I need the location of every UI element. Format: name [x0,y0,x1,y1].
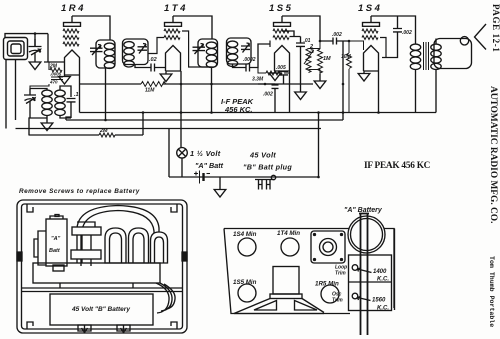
capacitor .01 screen bypass [282,31,305,52]
capacitor .002 AF [258,84,279,113]
svg-text:3.3M: 3.3M [252,77,264,83]
wire T1 to rail [105,68,107,120]
IF can spool post [81,235,91,250]
potentiometer 2M volume [304,49,320,73]
tube V1 1R4 converter [63,16,81,75]
tube bulb 1 [105,228,126,263]
capacitor .002 coupling to V4 [320,38,349,45]
resistor 10M grid [347,41,364,113]
svg-text:.002: .002 [332,32,342,38]
wire rail A+ y120 [66,119,343,121]
wire V1 plate to T1 [72,16,110,40]
osc trimmer screw [352,293,358,299]
cabinet inner wall [22,204,183,329]
speaker flange [270,294,302,299]
corner screw tab bottom left [27,322,33,329]
svg-text:1T4: 1T4 [164,3,188,14]
ground under V2 [160,71,172,82]
svg-text:1S4: 1S4 [358,3,382,14]
wire primary to B+ rail [415,70,417,113]
B battery box [50,294,153,325]
ground under V3 [269,71,281,81]
B battery tabs [78,325,130,333]
wire 3.3M returns [258,68,290,74]
wire riser x169 [168,129,170,178]
oscillator coil T0 secondary [55,90,65,115]
cabinet latch left [17,252,22,261]
wire V3 plate to volume control [282,16,320,41]
svg-text:.005: .005 [276,65,286,71]
output transformer primary coil [410,44,420,69]
svg-text:K.C.: K.C. [377,277,389,283]
svg-text:IF PEAK 456 KC: IF PEAK 456 KC [364,161,430,171]
ground screen bypass [295,52,307,100]
wire secondary bottom [435,70,437,113]
wire riser x181.5 lamp feed [180,71,182,148]
B battery plug [255,175,276,189]
corner screw tab top left [27,204,33,212]
A battery round cell [348,216,385,253]
output transformer secondary coil [431,44,441,69]
loop antenna panel inner [82,211,154,264]
wire riser x289.5 V3 [289,71,291,113]
svg-text:"A" Batt: "A" Batt [195,161,224,170]
speaker SP1 frame [434,37,472,69]
svg-text:Trim: Trim [335,271,346,277]
coil T1 primary [104,43,114,68]
ground battery [214,177,226,197]
wire V2 plate to T2 [173,16,212,39]
IF transformer T2 primary tank [193,39,218,67]
svg-text:1R4: 1R4 [61,3,86,14]
variable capacitor C2 osc [24,89,36,119]
wire riser x29 osc [29,118,30,135]
svg-text:1M: 1M [323,56,331,62]
shelf notch [60,283,133,288]
IF can square [311,231,345,263]
svg-text:AUTOMATIC RADIO MFG. CO.: AUTOMATIC RADIO MFG. CO. [488,86,498,223]
tube V4 1S4 output [362,16,380,71]
svg-text:Remove Screws to replace Batte: Remove Screws to replace Battery [19,188,140,195]
wire V4 plate to output transformer [371,16,416,44]
trimmer box [349,255,392,311]
svg-text:"A" Battery: "A" Battery [344,207,383,214]
svg-text:.002: .002 [402,30,412,36]
svg-text:.0005: .0005 [50,72,62,77]
svg-text:1 ½ Volt: 1 ½ Volt [190,149,221,158]
socket V1 1R5 [321,285,339,303]
tube V2 1T4 IF amplifier [164,16,182,71]
battery clamp left [34,231,46,265]
ground under V4 [358,71,370,81]
wire battery rail [169,176,319,178]
wire T2 primary to rail [211,67,213,113]
wire V1 grid network [30,62,49,89]
IF can spool top flange [72,227,101,235]
svg-text:Tom Thumb Portable: Tom Thumb Portable [488,256,495,327]
speaker hole right [295,301,318,311]
speaker magnet [273,267,299,295]
cabinet latch right [182,252,187,261]
svg-text:Trim: Trim [332,298,343,304]
pilot lamp [177,148,188,178]
resistor 2M filament [99,133,115,137]
coil T2 primary [206,42,216,67]
loop antenna panel outer [77,206,159,264]
coil T1 secondary [124,42,134,67]
cabinet outer case [17,200,187,333]
resistor 2M grid leak [50,68,62,72]
chassis plate [224,229,394,314]
battery A cell [194,171,210,184]
tube V3 1S5 detector/AF [273,16,291,71]
svg-text:2M: 2M [99,128,108,134]
svg-text:"B" Batt plug: "B" Batt plug [243,163,292,172]
IF transformer T2 secondary tank [227,38,252,64]
svg-text:11M: 11M [145,88,155,94]
chassis shelf [33,263,160,283]
socket V3 1S5 [238,284,256,302]
corner screw tab bottom right [171,322,177,329]
svg-text:1S5 Min: 1S5 Min [233,279,257,286]
wire secondary top to speaker [435,39,437,45]
capacitor .002 plate bypass [382,16,402,58]
svg-text:.1: .1 [74,92,79,98]
ground under volume pot [314,74,326,89]
wire rail B- y112.5 [80,112,437,114]
wire riser x79.5 V1 [79,75,81,113]
wire antenna to grid [5,34,65,62]
capacitor .005 filament bypass [279,71,288,84]
svg-text:1S4 Min: 1S4 Min [233,231,257,238]
speaker basket [234,299,324,314]
shelf socket detail [53,265,64,271]
tube bulb 3 [151,232,168,263]
IF transformer T1 primary tank [90,40,115,68]
capacitor .0005 [51,77,63,80]
resistor 1M [309,41,323,74]
ground under C1 [29,62,41,70]
coiled lead wire [156,283,175,313]
wire antenna outer lead down [6,60,16,129]
ground under V1 [59,75,71,84]
capacitor .02 grid coupling [135,64,166,72]
oscillator coil T0 primary [42,90,52,115]
coil T2 secondary [227,41,237,66]
wire riser x66 [66,117,71,120]
wire riser x318.5 B feed [318,113,320,178]
resistor 3.3M diode load [266,71,282,75]
wire osc frame [30,86,71,123]
wire rail AVC y84 [80,83,314,85]
resistor 11M AVC [141,82,166,87]
svg-text:PAGE 12-1: PAGE 12-1 [491,4,500,52]
svg-text:45 Volt: 45 Volt [249,151,276,160]
svg-text:1400: 1400 [373,269,387,275]
IF transformer T1 secondary tank [123,39,149,65]
speaker cone [475,24,487,50]
svg-text:Batt: Batt [49,248,61,254]
A battery cell [46,219,67,266]
battery strap [359,214,369,336]
wire V2 screen drops [148,31,212,67]
divider rail [22,288,184,292]
svg-text:1560: 1560 [372,298,386,304]
wire rail y135 with 2M [29,134,144,136]
loop trimmer screw [352,265,358,271]
socket V4 1S4 [238,238,256,256]
corner screw tab top right [171,204,177,212]
speaker hole left [254,301,277,311]
svg-text:456 KC.: 456 KC. [224,105,253,114]
tube bulb 2 [129,228,149,263]
chassis right edge [394,229,396,311]
svg-text:.002: .002 [263,92,273,98]
wire riser x378.5 screen [378,71,380,113]
socket V2 1T4 [281,238,299,256]
svg-text:45 Volt "B" Battery: 45 Volt "B" Battery [71,306,130,313]
wire rail y128.5 [16,128,322,130]
output transformer core [424,42,429,70]
svg-text:2: 2 [309,44,313,50]
capacitor .0002 diode coupling [233,44,268,72]
variable capacitor C1 tuning [29,39,42,62]
svg-text:"A": "A" [51,236,61,242]
svg-text:.0002: .0002 [243,57,256,63]
wire riser x343 grid return [342,41,344,120]
capacitor .1 [67,90,76,118]
svg-text:.02: .02 [149,57,157,63]
IF can spool bottom flange [71,250,101,259]
svg-text:1R5 Min: 1R5 Min [315,281,339,288]
wire V4 screen link [380,38,386,58]
loop antenna L1 (concentric squares) [4,38,28,60]
ground under osc coil [41,123,53,131]
svg-text:470: 470 [49,80,58,85]
svg-text:1T4 Min: 1T4 Min [277,230,300,237]
svg-text:K.C.: K.C. [377,306,389,312]
diode plate bar [268,41,271,48]
svg-text:1S5: 1S5 [269,3,293,14]
wire riser x143 [142,113,144,136]
